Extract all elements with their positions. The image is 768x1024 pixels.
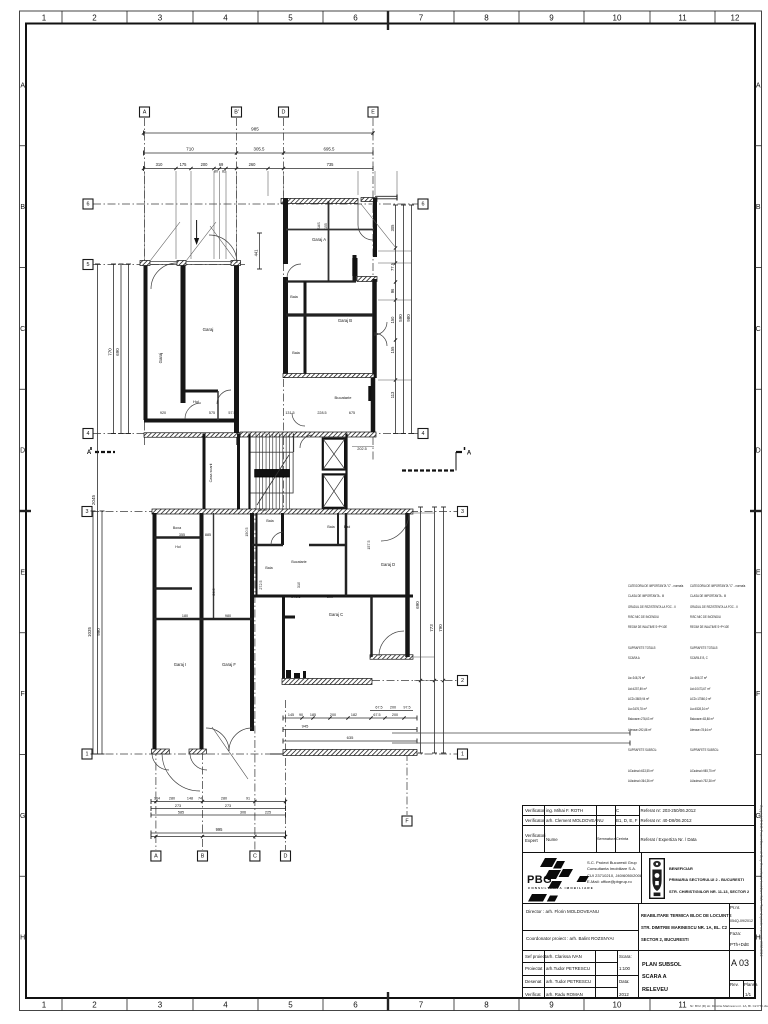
svg-text:175: 175 [180, 162, 188, 167]
svg-text:2045: 2045 [91, 494, 96, 505]
svg-text:B: B [756, 204, 761, 211]
svg-text:985: 985 [251, 127, 259, 132]
svg-text:96: 96 [390, 288, 395, 293]
svg-text:9: 9 [549, 13, 554, 22]
svg-text:228.5: 228.5 [317, 411, 326, 415]
svg-text:Garaj: Garaj [158, 353, 163, 364]
svg-text:Garaj I: Garaj I [174, 662, 187, 667]
svg-text:3: 3 [86, 509, 89, 515]
svg-text:5: 5 [87, 262, 90, 268]
svg-text:Bucatarie: Bucatarie [291, 560, 306, 564]
svg-text:Baia: Baia [292, 351, 300, 355]
svg-text:D: D [282, 110, 286, 116]
svg-text:3: 3 [158, 13, 163, 22]
svg-text:A: A [87, 450, 92, 456]
svg-text:C: C [20, 326, 25, 333]
svg-text:Hol: Hol [175, 545, 181, 549]
svg-text:182: 182 [351, 713, 357, 717]
svg-text:D: D [20, 448, 25, 455]
svg-text:A: A [143, 110, 147, 116]
svg-text:D: D [756, 448, 761, 455]
svg-text:11: 11 [678, 13, 687, 22]
svg-text:SAS: SAS [317, 222, 321, 230]
svg-text:225: 225 [265, 810, 271, 814]
svg-text:6: 6 [87, 202, 90, 208]
svg-text:200: 200 [330, 713, 336, 717]
svg-text:995: 995 [216, 827, 224, 832]
svg-text:D: D [284, 854, 288, 860]
svg-text:77.5: 77.5 [390, 262, 395, 271]
svg-text:4: 4 [223, 1000, 228, 1009]
svg-text:5: 5 [288, 13, 293, 22]
svg-text:80: 80 [214, 170, 218, 174]
svg-text:84.6: 84.6 [212, 588, 216, 595]
svg-text:1035: 1035 [87, 626, 92, 637]
svg-text:Baia: Baia [265, 566, 272, 570]
svg-text:4: 4 [223, 13, 228, 22]
svg-text:3: 3 [461, 509, 464, 515]
svg-text:74: 74 [198, 797, 202, 801]
svg-text:Garaj: Garaj [203, 327, 214, 332]
svg-text:Nr: BV2 (R) str. Dimitrie Ma: Nr: BV2 (R) str. Dimitrie Marinescu nr. … [690, 1004, 768, 1008]
svg-text:273: 273 [225, 804, 231, 808]
svg-text:Garaj A: Garaj A [312, 237, 326, 242]
svg-text:11: 11 [678, 1000, 687, 1009]
svg-text:8: 8 [484, 13, 489, 22]
svg-text:585: 585 [178, 810, 184, 814]
svg-text:2: 2 [92, 13, 97, 22]
svg-text:675: 675 [349, 411, 355, 415]
svg-text:735: 735 [327, 162, 335, 167]
svg-text:150.5: 150.5 [257, 508, 266, 512]
svg-text:G: G [20, 813, 25, 820]
svg-text:1: 1 [42, 13, 47, 22]
svg-text:202.5: 202.5 [357, 447, 367, 451]
svg-text:67.5: 67.5 [373, 713, 380, 717]
svg-text:710: 710 [186, 147, 194, 152]
svg-text:97.5: 97.5 [403, 706, 410, 710]
svg-text:5: 5 [288, 1000, 293, 1009]
svg-text:Boxa: Boxa [173, 526, 181, 530]
svg-text:305: 305 [390, 224, 395, 232]
svg-text:F: F [21, 691, 25, 698]
svg-text:B: B [201, 854, 205, 860]
svg-text:8: 8 [484, 1000, 489, 1009]
svg-text:Garaj F: Garaj F [222, 662, 236, 667]
svg-text:Garaj B: Garaj B [338, 318, 352, 323]
svg-text:272.5: 272.5 [291, 595, 300, 599]
svg-text:150: 150 [390, 316, 395, 324]
svg-text:113: 113 [390, 391, 395, 398]
svg-text:Baia: Baia [290, 295, 298, 299]
svg-text:7: 7 [419, 13, 424, 22]
svg-text:10: 10 [613, 13, 622, 22]
svg-text:82: 82 [222, 170, 226, 174]
svg-text:695.5: 695.5 [324, 147, 336, 152]
svg-text:1: 1 [42, 1000, 47, 1009]
svg-text:575: 575 [209, 411, 215, 415]
svg-text:57.5: 57.5 [228, 411, 235, 415]
svg-text:C: C [253, 854, 257, 860]
svg-text:6: 6 [353, 1000, 358, 1009]
svg-text:920: 920 [160, 411, 166, 415]
svg-text:1: 1 [86, 752, 89, 758]
svg-text:990: 990 [96, 628, 101, 636]
svg-text:770: 770 [108, 348, 113, 356]
svg-text:145: 145 [288, 713, 294, 717]
svg-text:E: E [756, 569, 761, 576]
svg-text:273: 273 [175, 804, 181, 808]
svg-text:200: 200 [390, 706, 396, 710]
svg-text:185: 185 [310, 713, 316, 717]
svg-text:148: 148 [187, 797, 193, 801]
svg-text:Baia: Baia [266, 519, 273, 523]
svg-text:155: 155 [390, 346, 395, 354]
svg-text:Garaj C: Garaj C [329, 612, 343, 617]
svg-text:200: 200 [201, 162, 209, 167]
svg-text:A: A [20, 82, 25, 89]
svg-text:4: 4 [87, 431, 90, 437]
svg-text:3: 3 [158, 1000, 163, 1009]
svg-text:90: 90 [299, 713, 303, 717]
svg-text:6: 6 [353, 13, 358, 22]
svg-text:Garaj D: Garaj D [381, 562, 395, 567]
svg-text:306: 306 [240, 810, 246, 814]
svg-text:6: 6 [422, 202, 425, 208]
svg-text:Casa scarii: Casa scarii [209, 463, 213, 482]
svg-text:1: 1 [461, 752, 464, 758]
svg-text:C: C [756, 326, 761, 333]
svg-text:67.5: 67.5 [375, 706, 382, 710]
svg-text:2: 2 [92, 1000, 97, 1009]
svg-text:A: A [756, 82, 761, 89]
svg-text:305.5: 305.5 [254, 147, 266, 152]
svg-text:690: 690 [415, 601, 420, 609]
svg-text:10: 10 [613, 1000, 622, 1009]
svg-text:150.5: 150.5 [245, 527, 249, 536]
svg-text:91: 91 [246, 797, 250, 801]
svg-text:180: 180 [182, 614, 188, 618]
svg-text:A: A [467, 451, 472, 457]
svg-text:A: A [154, 854, 158, 860]
svg-text:B: B [20, 204, 25, 211]
svg-text:7: 7 [419, 1000, 424, 1009]
svg-text:280: 280 [169, 797, 175, 801]
svg-text:2: 2 [461, 678, 464, 684]
svg-text:131.5: 131.5 [285, 411, 294, 415]
svg-text:355: 355 [179, 533, 185, 537]
svg-text:790: 790 [438, 624, 443, 632]
svg-text:690: 690 [115, 348, 120, 356]
svg-text:280: 280 [221, 797, 227, 801]
svg-text:773: 773 [429, 624, 434, 632]
svg-text:980: 980 [406, 314, 411, 322]
svg-text:H: H [20, 935, 25, 942]
svg-text:272.5: 272.5 [259, 580, 263, 589]
svg-text:590: 590 [327, 595, 333, 599]
svg-text:441: 441 [253, 249, 258, 257]
svg-text:12: 12 [731, 13, 740, 22]
svg-text:885: 885 [205, 533, 211, 537]
svg-text:635: 635 [347, 735, 354, 740]
svg-text:590: 590 [398, 314, 403, 322]
svg-text:Bucatarie: Bucatarie [335, 395, 353, 400]
svg-text:260: 260 [249, 162, 257, 167]
svg-text:F: F [756, 691, 760, 698]
svg-text:E: E [20, 569, 25, 576]
svg-text:Bad: Bad [344, 525, 350, 529]
svg-text:E: E [371, 110, 375, 116]
svg-text:310: 310 [156, 162, 164, 167]
svg-text:Baia: Baia [327, 525, 334, 529]
svg-text:69: 69 [219, 162, 224, 167]
svg-text:310: 310 [297, 582, 301, 588]
svg-text:Hol: Hol [193, 399, 199, 404]
svg-text:980: 980 [225, 614, 231, 618]
svg-text:155: 155 [324, 223, 328, 229]
svg-text:157.5: 157.5 [367, 540, 371, 549]
svg-text:B': B' [234, 110, 239, 116]
svg-text:9: 9 [549, 1000, 554, 1009]
svg-text:200: 200 [392, 713, 398, 717]
svg-text:4: 4 [422, 431, 425, 437]
svg-text:945: 945 [302, 724, 309, 729]
